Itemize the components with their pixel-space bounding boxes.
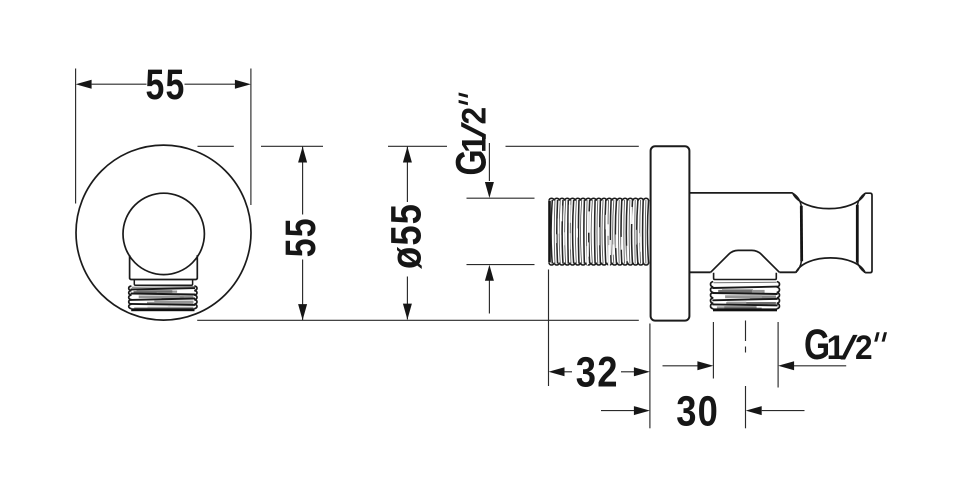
svg-text:32: 32 bbox=[576, 349, 619, 397]
dim 30: outlet centerline upper segment bbox=[745, 321, 747, 342]
dim ø55: top extension line seg (right of G text) bbox=[506, 145, 639, 147]
dim G1/2 outlet: label bbox=[804, 321, 887, 369]
side view wall plate (ø55 escutcheon, edge-on) bbox=[651, 146, 690, 320]
dim 55 height: top extension line seg1 bbox=[198, 145, 234, 147]
svg-text:ø55: ø55 bbox=[382, 203, 430, 269]
dim G1/2 pipe: upper extension line bbox=[467, 197, 535, 199]
dim G1/2 outlet: left arrow leader bbox=[663, 365, 698, 367]
dim G1/2 pipe: down arrowhead bbox=[485, 182, 494, 198]
holder: top concave silhouette bbox=[793, 193, 865, 208]
side view threaded inlet pipe G1/2 (vertical thread lines) bbox=[549, 198, 649, 266]
dim ø55: down arrowhead bbox=[403, 304, 412, 320]
dim 30: left arrow leader bbox=[601, 410, 634, 412]
holder: top-right chamfer bbox=[857, 193, 865, 205]
holder: bottom-left chamfer bbox=[796, 261, 802, 273]
dim ø55: dimension line lower segment bbox=[406, 277, 408, 320]
dim 32: left arrowhead bbox=[549, 367, 565, 376]
dim G1/2 outlet: right arrow leader bbox=[794, 365, 846, 367]
side view outlet threads G1/2 (horizontal thread bands) bbox=[711, 282, 780, 312]
dim 55 height: bottom extension line (long, shared) bbox=[197, 319, 639, 321]
dim G1/2 pipe: upper leader line bbox=[488, 143, 490, 181]
front view outer circle (escutcheon ø55) bbox=[76, 145, 251, 320]
dim 30: outlet centerline lower segment bbox=[745, 386, 747, 428]
side view outlet boss (trapezoid mound) bbox=[711, 250, 780, 272]
side view body bottom edge right segment bbox=[779, 271, 795, 273]
front view collar step band bbox=[134, 280, 192, 286]
dim 30: right arrow leader bbox=[762, 410, 805, 412]
dim 55 width: right arrowhead bbox=[235, 80, 251, 89]
dim 55 width: left arrowhead bbox=[76, 80, 92, 89]
front view threaded nipple G1/2 (horizontal thread bands) bbox=[129, 286, 197, 311]
dim 55 height: top extension line seg2 bbox=[261, 145, 323, 147]
holder: bottom concave silhouette bbox=[796, 258, 865, 273]
holder: right rim (bold) bbox=[856, 205, 859, 263]
front view inner circle (boss) bbox=[123, 193, 204, 274]
dim 55 height: label 55 (rotated) bbox=[277, 217, 325, 257]
holder: left rim (bold) bbox=[800, 206, 803, 261]
dim 55 width: right extension line bbox=[250, 69, 252, 206]
front view collar right side bbox=[196, 255, 198, 278]
dim ø55: label (rotated) bbox=[382, 203, 430, 269]
dim 55 height: dimension line upper segment bbox=[302, 147, 304, 215]
front view collar left side bbox=[129, 255, 131, 278]
dim 32: dimension line left segment bbox=[565, 371, 573, 373]
dim G1/2 outlet: left extension line bbox=[712, 322, 714, 379]
svg-text:55: 55 bbox=[277, 217, 325, 257]
dim 32: right extension line bbox=[649, 324, 651, 429]
dim 32: dimension line right segment bbox=[621, 371, 634, 373]
svg-text:2: 2 bbox=[455, 107, 493, 125]
dim ø55: top extension line seg (left of G text) bbox=[388, 145, 447, 147]
holder: top-left chamfer bbox=[793, 193, 802, 206]
dim 55 height: down arrowhead bbox=[298, 304, 307, 320]
dim 30: right arrowhead (pointing left) bbox=[746, 406, 762, 415]
dim 55 height: dimension line lower segment bbox=[302, 260, 304, 321]
dim ø55: dimension line upper segment bbox=[406, 147, 408, 203]
dim G1/2 pipe: lower leader line bbox=[488, 281, 490, 314]
dim 32: left extension line bbox=[548, 270, 550, 387]
side view body top edge bbox=[689, 192, 792, 194]
front view collar bottom edge bbox=[130, 278, 198, 280]
svg-text:1: 1 bbox=[827, 329, 846, 367]
dim G1/2 outlet: left arrowhead (pointing right) bbox=[697, 361, 713, 370]
dim G1/2 outlet: right arrowhead (pointing left) bbox=[778, 361, 794, 370]
dim G1/2 pipe: lower extension line bbox=[467, 264, 535, 266]
dim ø55: up arrowhead bbox=[403, 147, 412, 163]
holder: end cap outline bbox=[865, 193, 872, 272]
dim 55 width: dimension line left segment bbox=[92, 83, 147, 85]
svg-text:55: 55 bbox=[146, 61, 186, 109]
dim 30: left arrowhead (pointing right) bbox=[634, 406, 650, 415]
dim 30: outlet centerline dash bbox=[745, 347, 747, 353]
dim G1/2 outlet: right extension line bbox=[777, 322, 779, 388]
dim 55 height: up arrowhead bbox=[298, 147, 307, 163]
holder: bottom-right chamfer bbox=[857, 262, 865, 273]
dim 32: right arrowhead bbox=[634, 367, 650, 376]
dim G1/2 pipe: label (rotated) bbox=[447, 93, 495, 176]
svg-text:1: 1 bbox=[455, 134, 493, 153]
dim 55 width: dimension line right segment bbox=[185, 83, 236, 85]
dim G1/2 pipe: up arrowhead bbox=[485, 265, 494, 281]
svg-text:2: 2 bbox=[855, 329, 873, 367]
dim 55 width: left extension line bbox=[75, 69, 77, 204]
side view body bottom edge left segment bbox=[689, 271, 710, 273]
svg-text:30: 30 bbox=[676, 387, 719, 435]
side view outlet collar band bbox=[714, 273, 777, 280]
